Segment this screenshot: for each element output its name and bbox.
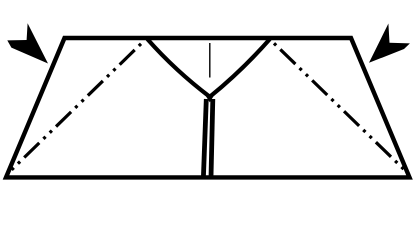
raw edge double line (right): [211, 99, 213, 177]
crease mark (thin vertical line): [209, 43, 211, 78]
paper outline (trapezoid): [6, 38, 410, 177]
mountain fold dash-dot line (right): [274, 43, 409, 174]
valley fold V (center notch): [147, 39, 270, 97]
vertex wedge (V meets raw edges): [206, 96, 214, 102]
push arrow (left): [7, 23, 48, 63]
push arrow (right): [369, 24, 410, 63]
mountain fold dash-dot line (left): [7, 44, 141, 175]
raw edge double line (left): [203, 99, 206, 177]
